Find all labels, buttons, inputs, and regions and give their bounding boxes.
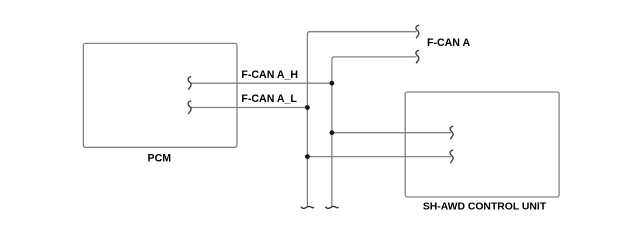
junction dot: F-CAN A_L to left bus (305, 105, 310, 110)
squiggle at SH-AWD pin 1 (450, 126, 453, 139)
svg-text:F-CAN A_H: F-CAN A_H (241, 69, 298, 81)
svg-text:F-CAN A: F-CAN A (427, 37, 471, 49)
squiggle at PCM F-CAN A_L pin (188, 101, 191, 114)
wire left vertical bus with top corner to F-CAN A (307, 32, 416, 207)
junction dot: left bus to SH-AWD pin 2 (305, 154, 310, 159)
svg-text:F-CAN A_L: F-CAN A_L (241, 93, 297, 105)
squiggle at F-CAN A upper wire end (416, 25, 419, 38)
tilde continuation at right bus bottom (326, 206, 339, 208)
svg-text:SH-AWD CONTROL UNIT: SH-AWD CONTROL UNIT (423, 202, 547, 213)
box PCM (83, 43, 237, 147)
junction dot: F-CAN A_H to right bus (330, 81, 335, 86)
box SH-AWD CONTROL UNIT (405, 92, 559, 197)
wire to SH-AWD pin 2 (307, 156, 451, 158)
tilde continuation at left bus bottom (301, 206, 314, 208)
squiggle at F-CAN A lower wire end (416, 50, 419, 63)
wire F-CAN A_H horizontal (190, 82, 332, 84)
wire to SH-AWD pin 1 (332, 132, 451, 134)
squiggle at PCM F-CAN A_H pin (188, 77, 191, 90)
wire F-CAN A_L horizontal (190, 107, 307, 109)
wire right vertical bus with top corner to F-CAN A (332, 57, 417, 207)
squiggle at SH-AWD pin 2 (450, 150, 453, 163)
svg-text:PCM: PCM (148, 153, 172, 165)
junction dot: right bus to SH-AWD pin 1 (330, 130, 335, 135)
